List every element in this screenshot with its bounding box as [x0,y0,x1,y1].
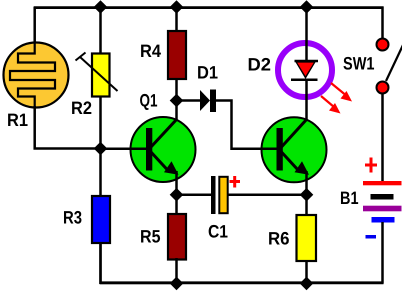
svg-text:R5: R5 [140,227,161,247]
wire R1 top lead [33,7,36,45]
capacitor C1 [211,176,228,214]
wire Q2 collector lead [305,80,308,121]
wire Q1 emitter lead [175,171,178,196]
wire Q1 collector lead [175,100,178,121]
junction top-R4 [170,0,184,14]
wire D1 cathode to Q2 base [215,101,251,149]
svg-text:Q1: Q1 [140,91,158,111]
wire Q2 base [250,147,280,150]
wire R4 bottom lead [175,78,178,101]
wire battery to bottom rail [381,222,384,284]
wire SW1 to battery [381,93,384,182]
battery B1 [363,181,402,223]
switch SW1 [377,39,402,94]
D2 emission arrow 2 [321,96,341,114]
svg-text:SW1: SW1 [343,54,375,74]
junction top-D2 [300,0,314,14]
svg-text:B1: B1 [340,188,359,208]
wire R2 top lead [99,8,102,56]
resistor R4 (dark red) [168,31,186,79]
wire Q2 emitter lead [305,171,308,196]
transistor Q1 [131,117,196,182]
battery minus sign [366,235,377,239]
svg-text:C1: C1 [208,222,228,242]
transistor Q2 [262,117,327,182]
wire R2 bottom lead [99,96,102,149]
wire R3 bottom lead [101,242,177,283]
junction R4-D1-Q1 [170,94,184,108]
wire top rail [34,6,384,9]
junction R5-bottom rail [170,277,184,291]
svg-text:D2: D2 [248,55,272,75]
wire C1 left lead [176,193,212,196]
resistor R3 (blue) [92,196,110,243]
D2 emission arrow 1 [331,83,352,102]
junction R6-bottom rail [300,277,314,291]
resistor R5 (dark red) [168,194,186,283]
wire Q1 base [100,147,150,150]
svg-text:R1: R1 [7,110,28,130]
resistor R2 (preset, yellow) [76,53,118,97]
svg-text:R3: R3 [63,208,82,228]
wire R1 bottom lead [35,106,100,149]
battery plus sign [365,158,377,173]
wire bottom rail [100,281,384,284]
diode D1 [200,90,216,113]
LED D2 symbol [291,61,318,80]
wire C1 right lead [228,193,307,196]
wire SW1 top lead [381,7,384,41]
junction Q1emitter-C1-R5 [170,188,184,202]
wire D1 anode [176,99,200,102]
wire R4 top lead [175,8,178,34]
wire R3 top lead [99,148,102,197]
wire D2 top lead [305,8,308,62]
junction R1-R2-R3-Q1base [94,142,108,156]
junction Q2emitter-C1-R6 [300,188,314,202]
svg-text:D1: D1 [197,63,218,83]
photoresistor R1 [4,43,69,108]
svg-text:R2: R2 [71,98,92,118]
C1 plus sign [230,176,241,188]
junction top-R2 [94,0,108,14]
svg-text:R4: R4 [140,41,161,61]
LED D2 purple ring [278,43,332,97]
svg-text:R6: R6 [268,229,290,249]
resistor R6 (yellow) [297,194,317,283]
